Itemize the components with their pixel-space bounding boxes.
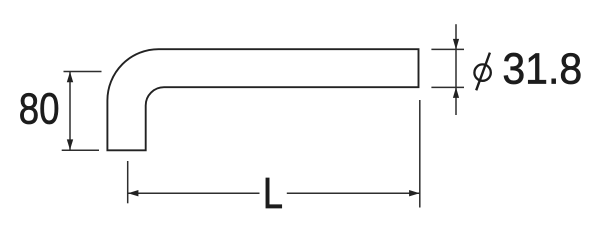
svg-text:31.8: 31.8 [502,44,582,92]
svg-text:L: L [263,170,283,218]
svg-text:80: 80 [19,85,60,134]
